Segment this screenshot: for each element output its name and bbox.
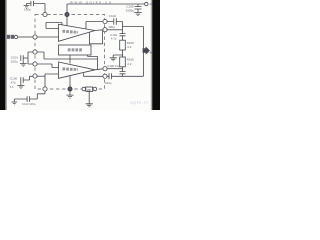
pin 4 (right edge, amp1 out): [103, 28, 107, 32]
border bar left: [0, 0, 5, 110]
ground (bottom left): [11, 99, 17, 105]
paper background: [0, 0, 160, 110]
wire R105 to R106: [122, 50, 124, 57]
op-amp U1 (amplifier 1): [59, 24, 96, 41]
wire (top-left cap to pin 1): [44, 4, 46, 13]
node junction (bottom edge left of R): [82, 87, 86, 91]
wire amp2 lower out stub: [83, 73, 85, 76]
wire bracket to pins 6,7: [28, 52, 33, 64]
ground (bottom center): [86, 104, 93, 107]
ground (under C101): [20, 61, 27, 67]
svg-text:5.6: 5.6: [10, 85, 14, 89]
label protection (Chinese blob): [68, 48, 82, 51]
capacitor C100: [21, 76, 33, 83]
wire box to amp2: [69, 55, 71, 64]
wire pin11 to node: [107, 68, 122, 70]
wire feedback top: [86, 22, 102, 29]
wire pin9 to bottom RC: [30, 91, 45, 99]
svg-text:100μ: 100μ: [11, 60, 18, 64]
ground (mid right): [110, 58, 117, 61]
pin 3 (left edge input): [33, 35, 37, 39]
svg-text:100μ: 100μ: [105, 81, 112, 85]
svg-text:4.7μ: 4.7μ: [111, 36, 117, 40]
wire R106 down: [122, 67, 124, 72]
pin 10 (bottom edge, dark): [68, 87, 72, 91]
pin 9 (bottom edge): [43, 87, 47, 91]
wire bootstrap loop under amp1: [90, 30, 103, 43]
wire R103 to ground: [88, 91, 90, 103]
pin 2 (top edge, dark circle): [65, 13, 69, 17]
wire speaker return: [143, 52, 145, 76]
ground (under pin 10): [66, 91, 73, 98]
svg-text:2200μ: 2200μ: [126, 8, 135, 12]
protection circuit box: [59, 45, 92, 55]
wire pin7 to amp2 input: [37, 64, 58, 68]
svg-text:C106 0.1μ: C106 0.1μ: [107, 64, 120, 68]
pin 11 (right edge, amp2 out): [103, 67, 107, 71]
wire amp2 output: [95, 69, 102, 70]
svg-text:100: 100: [87, 88, 92, 92]
wire amp1 output: [95, 29, 102, 32]
wire pin4 to node: [107, 29, 122, 31]
wire amp2 lower input: [45, 74, 59, 87]
capacitor C1 (top-left, to ground): [27, 1, 46, 6]
pin 6 (left edge): [33, 50, 37, 54]
vertical node chain (right): [122, 22, 124, 34]
op-amp U2 (amplifier 2): [59, 62, 96, 78]
pin 8 (left edge): [33, 74, 37, 78]
border bar right: [152, 0, 160, 110]
ground (under C108): [134, 13, 142, 16]
capacitor C110 (bottom left): [14, 96, 29, 102]
wire box to feedback2: [88, 55, 98, 69]
wire +V rail: [67, 4, 145, 12]
svg-text:100μ: 100μ: [108, 25, 115, 29]
wire amp2 bottom to pin 10: [69, 76, 71, 87]
resistor R103 (bottom edge): [86, 87, 93, 91]
pin 7 (left edge): [33, 62, 37, 66]
svg-text:2.2: 2.2: [127, 62, 131, 66]
label amp1 (Chinese blob): [63, 30, 78, 34]
wire pin12 left: [84, 75, 103, 77]
wire pin3 to amp1 noninverting input: [37, 36, 58, 38]
svg-text:C102: C102: [109, 14, 117, 18]
node junction (bottom edge right of R): [93, 87, 97, 91]
wire pin2 to amp1: [66, 17, 68, 26]
svg-text:C110 100μ: C110 100μ: [22, 102, 36, 106]
terminal +V: [145, 2, 148, 5]
label amp2 (Chinese blob): [63, 67, 78, 70]
svg-text:47μ: 47μ: [11, 80, 16, 84]
capacitor C104 (on chain): [120, 34, 126, 41]
capacitor C102: [107, 18, 122, 25]
ground (top-left): [24, 4, 30, 9]
capacitor C103: [107, 73, 143, 79]
svg-text:qqjkk.cn: qqjkk.cn: [130, 101, 148, 105]
ground (under C100): [17, 83, 24, 89]
pin 1 (top edge, open circle): [43, 12, 47, 16]
pin 5 (right edge, feedback): [103, 19, 107, 23]
speaker LS1: [143, 49, 146, 53]
capacitor C108 (supply filter): [135, 4, 142, 12]
capacitor C101: [21, 55, 28, 61]
capacitor C105 (on chain): [120, 72, 126, 77]
svg-text:2.2: 2.2: [127, 45, 131, 49]
wire pin6 ladder to long rail: [37, 52, 97, 59]
wire pin8 to x45 vertical: [37, 75, 45, 77]
svg-text:100p: 100p: [24, 8, 31, 12]
wire input to pin 3: [18, 36, 33, 38]
wire speaker feed: [123, 27, 144, 49]
wire to mid ground: [113, 55, 122, 58]
wire amp1 inverting input tie: [46, 23, 62, 29]
resistor R105: [120, 40, 126, 50]
pin 12 (right edge): [103, 74, 107, 78]
resistor R106: [120, 57, 126, 67]
node input terminal: [7, 35, 14, 39]
IC package dashed outline: [35, 15, 105, 90]
